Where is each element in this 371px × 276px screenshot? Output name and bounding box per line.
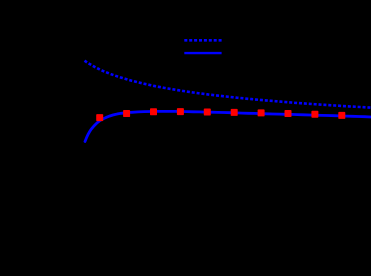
data marker 4 [177, 108, 184, 115]
data marker 6 [231, 109, 238, 116]
data marker 10 [338, 112, 345, 119]
legend dashed line sample [184, 39, 221, 42]
legend solid line sample [184, 52, 221, 54]
data marker 1 [96, 114, 103, 121]
data marker 3 [150, 108, 157, 115]
data marker 5 [204, 109, 211, 116]
data marker 7 [258, 109, 265, 116]
data marker 8 [285, 110, 292, 117]
data marker 2 [123, 110, 130, 117]
dotted curve (upper) [85, 61, 371, 108]
solid curve (lower fit line) [85, 111, 371, 141]
data marker 9 [311, 111, 318, 118]
